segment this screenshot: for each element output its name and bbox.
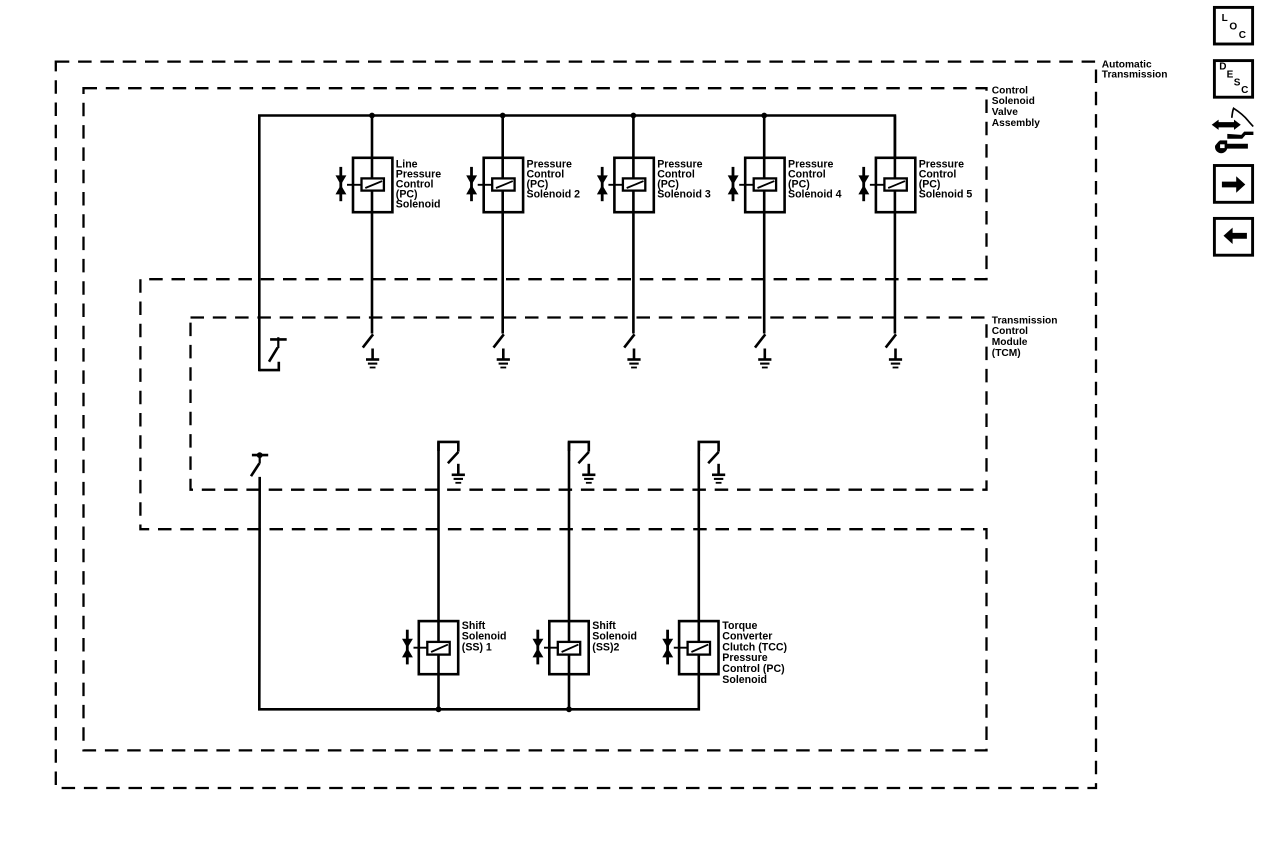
svg-text:Assembly: Assembly: [992, 118, 1040, 129]
wire: PC solenoid 4 control line: [763, 116, 766, 334]
wire: feed return line (left): [259, 477, 699, 709]
svg-text:Solenoid 4: Solenoid 4: [788, 189, 842, 201]
Control Solenoid Valve Assembly dashed boundary (notched): [84, 88, 987, 750]
svg-text:E: E: [1227, 69, 1234, 80]
switch: PC solenoid 5 low-side driver: [886, 334, 896, 347]
svg-text:(TCM): (TCM): [992, 348, 1021, 359]
wire: PC solenoid 5 control line: [894, 116, 897, 334]
icon: forward arrow button: [1214, 166, 1252, 203]
solenoid: Torque Converter Clutch (TCC) PC Solenoid: [662, 621, 718, 674]
switch: TCC PC solenoid low-side driver: [699, 442, 719, 463]
svg-text:(SS)2: (SS)2: [592, 641, 619, 653]
svg-text:(SS) 1: (SS) 1: [462, 641, 492, 653]
svg-text:Solenoid 2: Solenoid 2: [527, 189, 581, 201]
icon: LOC button: [1214, 7, 1252, 44]
Transmission Control Module (TCM) dashed boundary: [191, 318, 987, 490]
switch: PC solenoid 4 low-side driver: [755, 334, 765, 347]
svg-text:Control: Control: [992, 85, 1028, 96]
solenoid: Shift Solenoid (SS) 2: [533, 621, 589, 674]
label: Shift Solenoid (SS)2: [592, 620, 637, 654]
svg-text:S: S: [1234, 77, 1241, 88]
wire: PC solenoid 1 control line: [371, 116, 374, 334]
solenoid: Pressure Control (PC) Solenoid 4: [728, 158, 785, 212]
switch: PC solenoid 3 low-side driver: [624, 334, 634, 347]
solenoid: Line Pressure Control (PC) Solenoid: [336, 158, 393, 212]
ground (SS1 driver): [452, 464, 465, 483]
wire: Shift Solenoid 1 line: [437, 442, 440, 709]
svg-text:Solenoid: Solenoid: [396, 199, 441, 211]
ground (PC solenoid 5 driver): [889, 349, 902, 368]
label: Automatic Transmission: [1102, 60, 1168, 81]
switch: SS2 low-side driver: [569, 442, 589, 463]
label: Transmission Control Module (TCM): [992, 315, 1058, 358]
ground (PC solenoid 4 driver): [758, 349, 771, 368]
ground (TCC PC solenoid driver): [712, 464, 725, 483]
svg-text:Control: Control: [992, 326, 1028, 337]
ground (SS2 driver): [582, 464, 595, 483]
svg-text:Module: Module: [992, 337, 1028, 348]
label: Pressure Control (PC) Solenoid 5: [919, 158, 973, 200]
svg-text:Transmission: Transmission: [992, 315, 1058, 326]
junction node on bottom bus (1): [436, 706, 442, 712]
label: Pressure Control (PC) Solenoid 2: [527, 158, 581, 200]
junction node on top bus (column 4): [761, 113, 767, 119]
svg-text:Transmission: Transmission: [1102, 70, 1168, 81]
label: Line Pressure Control (PC) Solenoid: [396, 158, 441, 210]
svg-text:O: O: [1229, 22, 1237, 33]
ground (PC solenoid 1 driver): [366, 349, 379, 368]
junction node on bottom bus (2): [566, 706, 572, 712]
icon: back arrow button: [1214, 218, 1252, 255]
switch: TCM high-side driver (feed): [259, 337, 286, 370]
Automatic Transmission outer dashed boundary: [56, 62, 1096, 788]
label: Control Solenoid Valve Assembly: [992, 85, 1040, 128]
wire: TCC PC Solenoid line: [697, 442, 700, 675]
svg-text:C: C: [1239, 30, 1246, 41]
wire: PC solenoid 2 control line: [501, 116, 504, 334]
junction node on top bus (column 1): [369, 113, 375, 119]
solenoid: Pressure Control (PC) Solenoid 5: [858, 158, 915, 212]
switch: PC solenoid 2 low-side driver: [494, 334, 504, 347]
ground (PC solenoid 3 driver): [627, 349, 640, 368]
svg-text:L: L: [1222, 13, 1228, 24]
switch: SS1 low-side driver: [439, 442, 459, 463]
label: Shift Solenoid (SS) 1: [462, 620, 507, 654]
label: Pressure Control (PC) Solenoid 3: [657, 158, 711, 200]
svg-text:Solenoid 3: Solenoid 3: [657, 189, 711, 201]
ground (PC solenoid 2 driver): [497, 349, 510, 368]
switch: TCM feed driver (lower): [251, 452, 268, 476]
wire: top supply bus: [259, 116, 895, 372]
solenoid: Shift Solenoid (SS) 1: [402, 621, 458, 674]
junction node on top bus (column 3): [631, 113, 637, 119]
switch: PC solenoid 1 low-side driver: [363, 334, 373, 347]
label: Torque Converter Clutch (TCC) Pressure Control (PC) Solenoid: [722, 620, 787, 686]
junction node on top bus (column 2): [500, 113, 506, 119]
svg-text:Solenoid 5: Solenoid 5: [919, 189, 973, 201]
icon: DESC button: [1214, 61, 1252, 98]
svg-text:Solenoid: Solenoid: [722, 674, 767, 686]
solenoid: Pressure Control (PC) Solenoid 2: [466, 158, 523, 212]
svg-text:Solenoid: Solenoid: [992, 96, 1035, 107]
label: Pressure Control (PC) Solenoid 4: [788, 158, 842, 200]
wire: Shift Solenoid 2 line: [568, 442, 571, 709]
solenoid: Pressure Control (PC) Solenoid 3: [597, 158, 654, 212]
svg-text:D: D: [1219, 62, 1226, 73]
icon: tools / resize (double arrow, cable, wrench): [1212, 108, 1254, 153]
wire: PC solenoid 3 control line: [632, 116, 635, 334]
svg-text:C: C: [1241, 85, 1248, 96]
svg-text:Valve: Valve: [992, 107, 1018, 118]
